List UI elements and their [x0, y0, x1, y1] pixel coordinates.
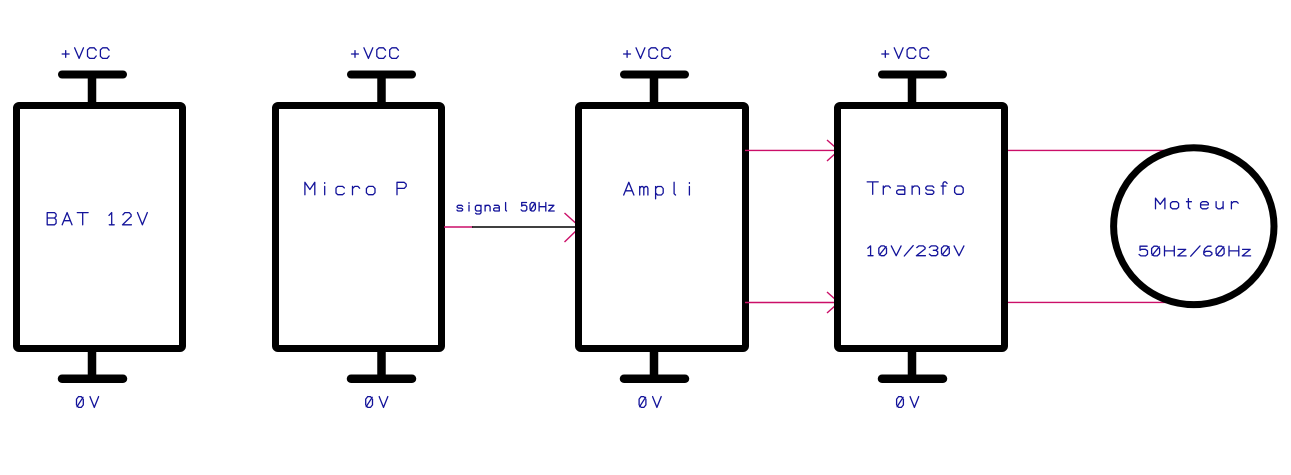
+VCC label (T1) [882, 48, 929, 59]
+VCC power rail symbol (U1): bar [351, 71, 412, 79]
motor M1 circle [1114, 148, 1274, 305]
value label "50Hz/60Hz" [1139, 246, 1251, 256]
+VCC label (U1) [352, 48, 399, 59]
0V ground symbol (BAT1): bar [62, 374, 123, 383]
arrowhead at Transfo upper input [827, 140, 839, 161]
net label "signal 50Hz" [457, 203, 554, 215]
+VCC power rail symbol (T1): bar [882, 71, 943, 79]
wire: Transfo secondary to Moteur upper [1008, 149, 1190, 151]
+VCC power rail symbol (U1): stub wire [377, 75, 386, 107]
0V label (T1) [897, 397, 919, 408]
wire: Ampli output to Transfo upper [745, 149, 836, 151]
+VCC power rail symbol (BAT1): stub wire [88, 75, 97, 107]
0V ground symbol (T1): stub wire [908, 348, 917, 379]
value label "Micro P" [305, 182, 406, 194]
value label "Ampli" [624, 182, 690, 199]
0V label (BAT1) [77, 397, 99, 408]
0V ground symbol (U1): bar [351, 374, 412, 383]
+VCC power rail symbol (BAT1): bar [62, 71, 123, 79]
block T1 "Transfo" [838, 106, 1005, 349]
0V label (U2) [639, 397, 661, 408]
+VCC power rail symbol (U2): bar [624, 71, 685, 79]
block BAT1 "BAT 12V" [17, 106, 183, 349]
block U2 "Ampli" [579, 106, 746, 349]
value label "Transfo" [867, 182, 963, 194]
+VCC power rail symbol (U2): stub wire [650, 75, 659, 107]
value label "10V/230V" [868, 246, 964, 256]
0V label (U1) [366, 397, 388, 408]
value label "Moteur" [1156, 198, 1239, 209]
0V ground symbol (U2): bar [624, 374, 685, 383]
0V ground symbol (BAT1): stub wire [88, 348, 97, 379]
0V ground symbol (T1): bar [882, 374, 943, 383]
arrowhead at Transfo lower input [827, 292, 839, 313]
value label "BAT 12V" [47, 213, 147, 225]
wire: signal from Micro P output (magenta segment) [444, 226, 473, 228]
0V ground symbol (U1): stub wire [377, 348, 386, 379]
0V ground symbol (U2): stub wire [650, 348, 659, 379]
+VCC label (BAT1) [62, 48, 109, 59]
wire: Ampli output to Transfo lower [745, 302, 836, 304]
block U1 "Micro P" [276, 106, 442, 349]
wire: signal to Ampli input (black segment) [472, 226, 580, 228]
+VCC power rail symbol (T1): stub wire [908, 75, 917, 107]
+VCC label (U2) [624, 48, 671, 59]
arrowhead at Ampli input (signal wire) [565, 213, 581, 242]
wire: Transfo secondary to Moteur lower [1008, 301, 1200, 303]
